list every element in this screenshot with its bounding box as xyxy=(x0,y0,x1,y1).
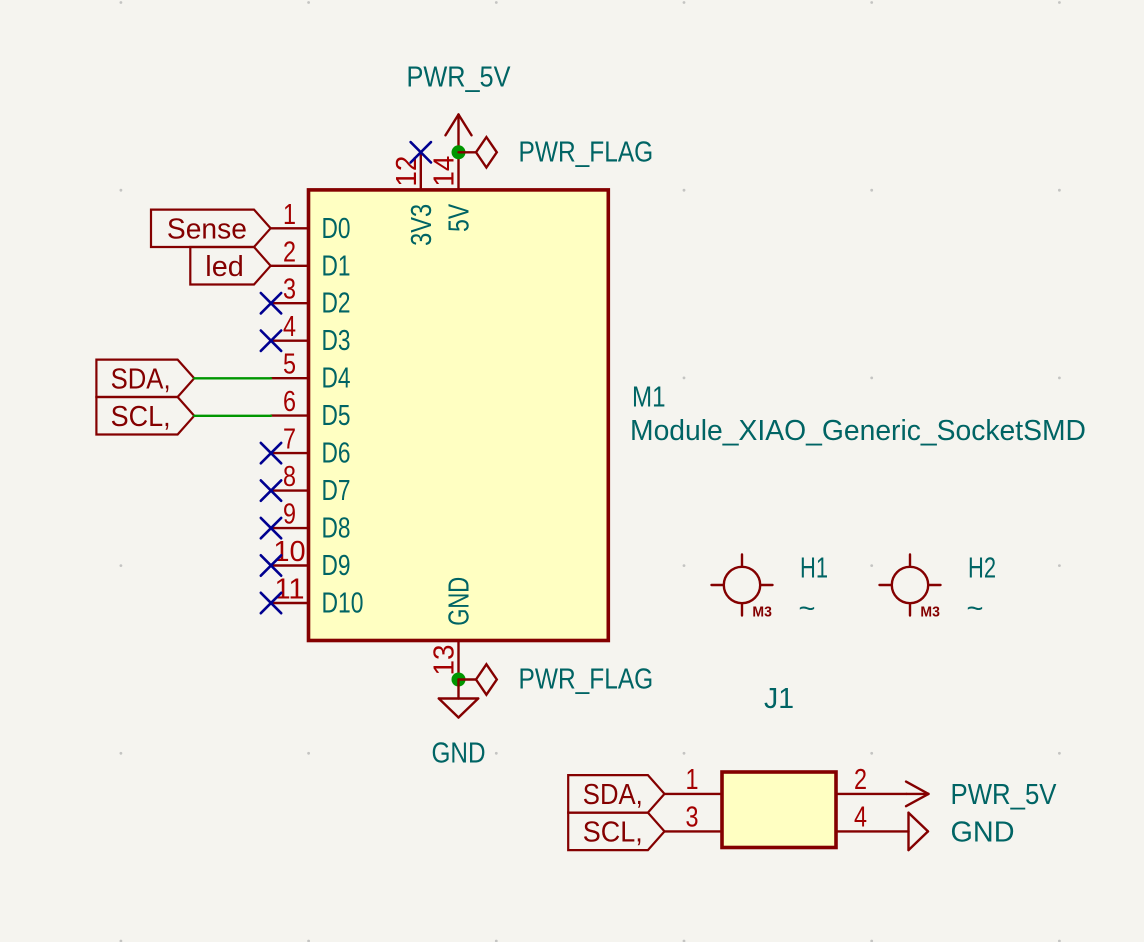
pin 8 (D7) xyxy=(271,461,351,507)
reference J1 xyxy=(764,683,794,715)
no-connect flag pin 4 xyxy=(261,331,281,351)
global label Sense xyxy=(151,210,271,247)
svg-text:8: 8 xyxy=(283,461,296,493)
svg-text:Module_XIAO_Generic_SocketSMD: Module_XIAO_Generic_SocketSMD xyxy=(630,415,1086,447)
svg-text:GND: GND xyxy=(444,577,476,626)
svg-text:D9: D9 xyxy=(322,550,351,582)
svg-text:5: 5 xyxy=(283,349,296,381)
no-connect flag pin 9 xyxy=(261,518,281,538)
global label SDA (left) xyxy=(96,360,194,397)
no-connect flag pin 10 xyxy=(261,555,281,575)
svg-text:11: 11 xyxy=(274,574,304,606)
svg-text:SCL,: SCL, xyxy=(111,401,171,433)
svg-text:M1: M1 xyxy=(632,381,666,413)
svg-text:D4: D4 xyxy=(322,363,351,395)
value Module_XIAO_Generic_SocketSMD xyxy=(630,415,1086,447)
svg-text:Sense: Sense xyxy=(167,213,247,245)
svg-text:GND: GND xyxy=(951,817,1015,849)
svg-text:3: 3 xyxy=(686,801,699,833)
pin 12 (3V3) xyxy=(391,152,438,246)
svg-text:3: 3 xyxy=(283,274,296,306)
svg-text:M3: M3 xyxy=(920,604,940,621)
no-connect flag pin 8 xyxy=(261,480,281,500)
global label SCL (left) xyxy=(96,397,194,435)
svg-text:3V3: 3V3 xyxy=(406,204,438,246)
svg-text:1: 1 xyxy=(686,764,699,796)
svg-text:led: led xyxy=(205,251,244,283)
junction on GND net xyxy=(452,673,466,687)
pin 1 of J1 xyxy=(665,764,723,796)
power symbol PWR_5V (right) xyxy=(906,779,1057,811)
svg-text:4: 4 xyxy=(854,801,867,833)
global label SDA (J1) xyxy=(568,775,664,813)
module M1 body xyxy=(309,190,609,641)
no-connect flag pin 7 xyxy=(261,443,281,463)
svg-text:13: 13 xyxy=(429,645,461,676)
svg-text:J1: J1 xyxy=(764,683,794,715)
pin 3 of J1 xyxy=(665,801,723,833)
value ~ of H1 xyxy=(799,593,816,625)
svg-text:D3: D3 xyxy=(322,325,351,357)
pin 14 (5V) xyxy=(429,152,476,232)
svg-text:H1: H1 xyxy=(800,553,828,585)
reference M1 xyxy=(632,381,666,413)
power flag PWR_FLAG (bottom) xyxy=(459,664,654,696)
svg-text:D7: D7 xyxy=(322,475,351,507)
pin 10 (D9) xyxy=(271,536,351,582)
svg-text:D8: D8 xyxy=(322,513,351,545)
svg-text:D10: D10 xyxy=(322,588,364,620)
svg-text:SDA,: SDA, xyxy=(583,779,643,811)
pin 6 (D5) xyxy=(271,386,351,432)
wire SDA to pin 5 xyxy=(194,377,271,379)
svg-text:10: 10 xyxy=(273,536,305,568)
svg-text:D2: D2 xyxy=(322,288,351,320)
pin 2 (D1) xyxy=(271,236,351,282)
mounting hole H2 xyxy=(880,555,941,621)
reference H2 xyxy=(968,553,996,585)
svg-text:~: ~ xyxy=(799,593,816,625)
svg-text:12: 12 xyxy=(391,156,423,187)
no-connect flag pin 3 xyxy=(261,293,281,313)
svg-text:SCL,: SCL, xyxy=(583,816,643,848)
power symbol GND (bottom) xyxy=(432,680,486,770)
svg-text:6: 6 xyxy=(283,386,296,418)
svg-text:9: 9 xyxy=(283,499,296,531)
pin 5 (D4) xyxy=(271,349,351,395)
svg-text:D1: D1 xyxy=(322,250,351,282)
wire SCL to pin 6 xyxy=(194,415,271,417)
mounting hole H1 xyxy=(712,555,773,621)
no-connect flag pin 11 xyxy=(261,593,281,613)
pin 4 (D3) xyxy=(271,311,351,357)
svg-text:H2: H2 xyxy=(968,553,996,585)
connector J1 body xyxy=(722,772,836,848)
svg-text:PWR_FLAG: PWR_FLAG xyxy=(519,136,654,168)
pin 9 (D8) xyxy=(271,499,351,545)
svg-text:5V: 5V xyxy=(444,203,476,232)
svg-text:2: 2 xyxy=(854,764,867,796)
svg-text:~: ~ xyxy=(967,593,984,625)
global label led xyxy=(190,247,270,285)
pin 7 (D6) xyxy=(271,424,351,470)
pin 1 (D0) xyxy=(271,199,351,245)
svg-text:D6: D6 xyxy=(322,438,351,470)
no-connect flag pin 12 xyxy=(411,142,431,162)
power symbol GND (right) xyxy=(909,813,1015,850)
svg-text:D5: D5 xyxy=(322,400,351,432)
svg-text:M3: M3 xyxy=(752,604,772,621)
power flag PWR_FLAG (top) xyxy=(459,136,654,168)
svg-text:GND: GND xyxy=(432,738,486,770)
pin 11 (D10) xyxy=(271,574,364,620)
svg-text:2: 2 xyxy=(283,236,296,268)
pin 2 of J1 xyxy=(836,764,907,796)
svg-text:PWR_5V: PWR_5V xyxy=(407,62,512,94)
junction on 5V net xyxy=(452,145,466,159)
reference H1 xyxy=(800,553,828,585)
power symbol PWR_5V (top) xyxy=(407,62,512,153)
svg-text:4: 4 xyxy=(283,311,296,343)
svg-text:14: 14 xyxy=(429,156,461,187)
svg-text:7: 7 xyxy=(283,424,296,456)
value ~ of H2 xyxy=(967,593,984,625)
pin 4 of J1 xyxy=(836,801,909,833)
svg-text:SDA,: SDA, xyxy=(111,363,171,395)
global label SCL (J1) xyxy=(568,813,664,851)
pin 13 (GND) xyxy=(429,577,476,680)
pin 3 (D2) xyxy=(271,274,351,320)
svg-text:D0: D0 xyxy=(322,213,351,245)
svg-text:PWR_5V: PWR_5V xyxy=(951,779,1058,811)
svg-text:1: 1 xyxy=(283,199,296,231)
svg-text:PWR_FLAG: PWR_FLAG xyxy=(519,664,654,696)
